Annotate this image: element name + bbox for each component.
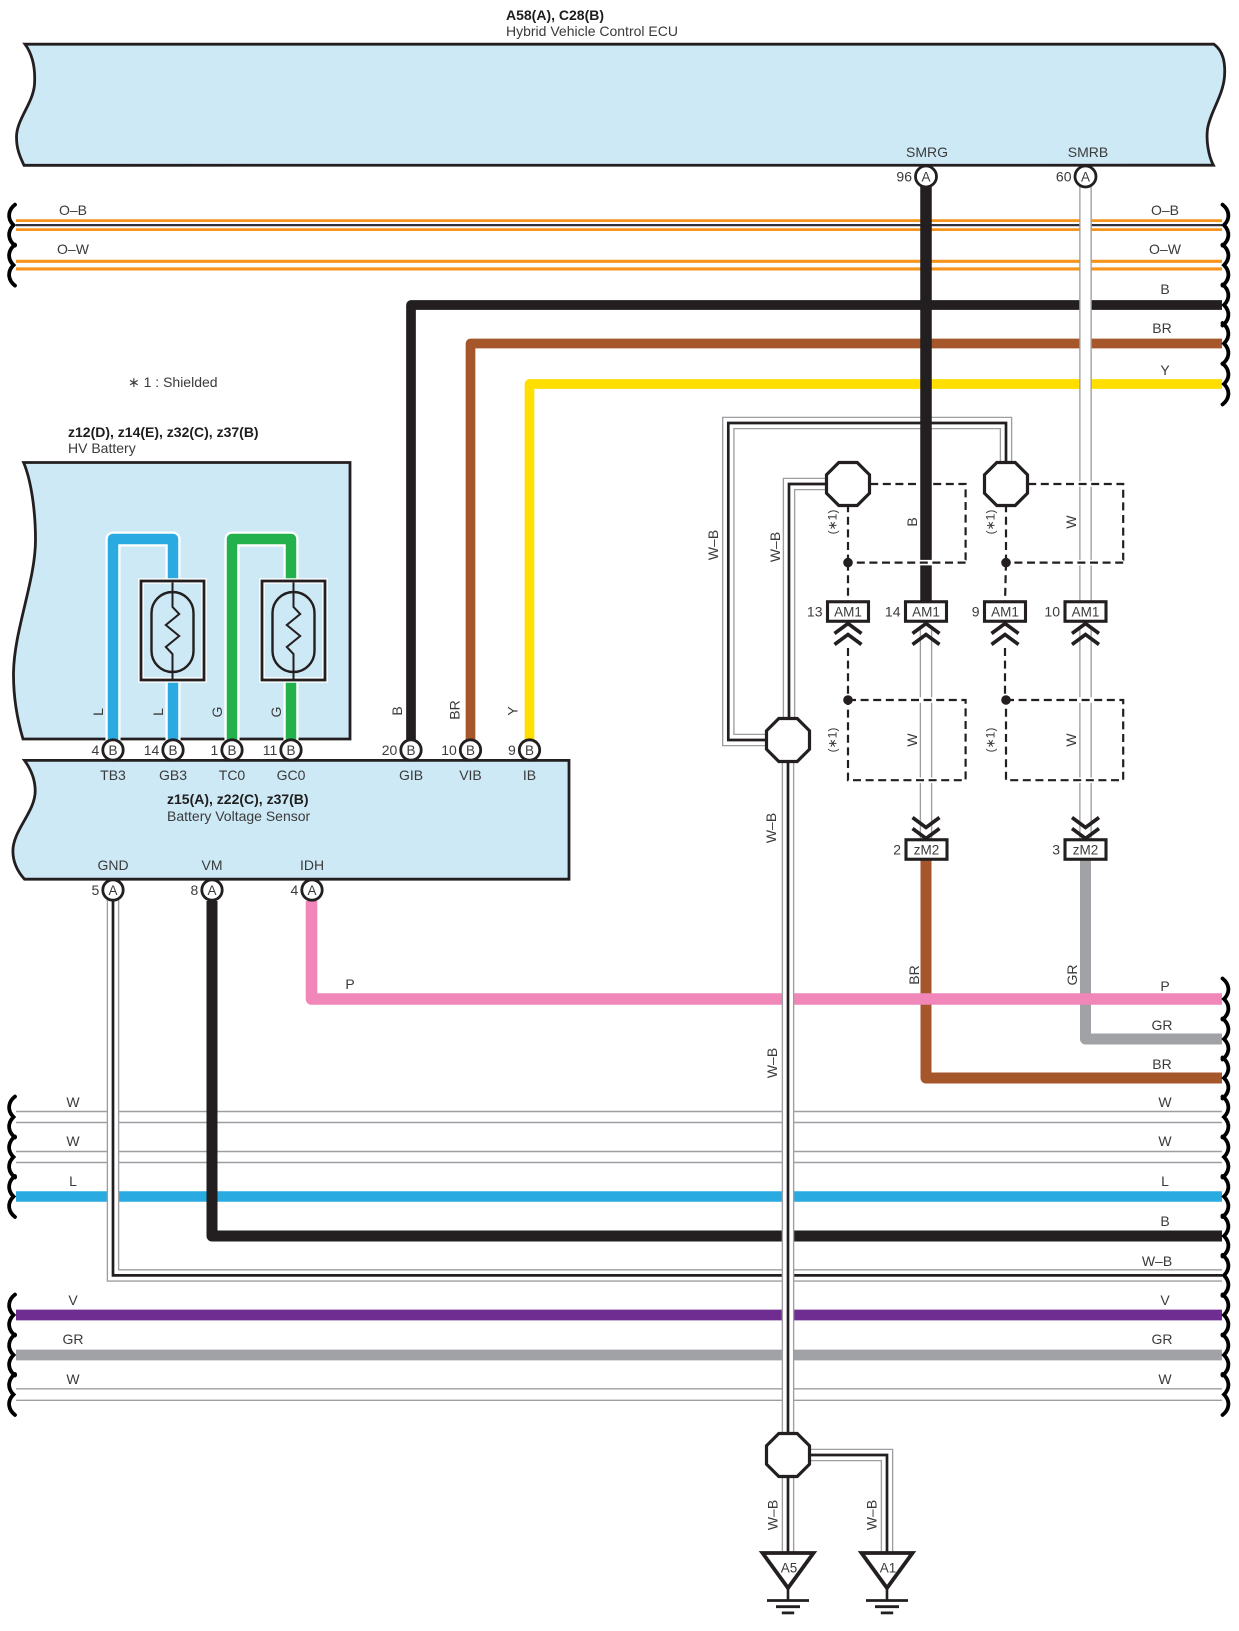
svg-text:B: B xyxy=(108,743,117,758)
svg-text:W–B: W–B xyxy=(864,1500,880,1530)
svg-text:W: W xyxy=(1158,1094,1172,1110)
svg-text:10: 10 xyxy=(1044,603,1060,619)
svg-text:A5: A5 xyxy=(781,1561,798,1576)
svg-text:2: 2 xyxy=(893,841,901,857)
svg-text:O–W: O–W xyxy=(1149,241,1182,257)
svg-text:P: P xyxy=(1160,978,1169,994)
svg-text:L: L xyxy=(150,708,166,716)
svg-text:B: B xyxy=(286,743,295,758)
svg-text:Hybrid Vehicle Control ECU: Hybrid Vehicle Control ECU xyxy=(506,23,678,39)
svg-text:11: 11 xyxy=(263,742,278,758)
svg-text:IB: IB xyxy=(523,767,536,783)
svg-text:GR: GR xyxy=(1152,1017,1173,1033)
svg-text:5: 5 xyxy=(92,882,100,898)
svg-text:TC0: TC0 xyxy=(219,767,246,783)
svg-text:3: 3 xyxy=(1052,841,1060,857)
svg-text:W: W xyxy=(1063,515,1079,529)
svg-text:GIB: GIB xyxy=(399,767,423,783)
svg-text:L: L xyxy=(1161,1173,1169,1189)
svg-text:IDH: IDH xyxy=(300,857,324,873)
svg-text:60: 60 xyxy=(1056,168,1072,184)
svg-text:P: P xyxy=(345,976,354,992)
svg-text:GR: GR xyxy=(1064,965,1080,986)
svg-text:1: 1 xyxy=(211,742,219,758)
svg-text:V: V xyxy=(1160,1292,1170,1308)
svg-text:B: B xyxy=(466,743,475,758)
svg-text:AM1: AM1 xyxy=(834,604,862,619)
svg-text:VM: VM xyxy=(202,857,223,873)
svg-text:z15(A), z22(C), z37(B): z15(A), z22(C), z37(B) xyxy=(167,791,309,807)
svg-text:G: G xyxy=(209,707,225,718)
svg-text:W–B: W–B xyxy=(765,1500,781,1530)
svg-text:AM1: AM1 xyxy=(991,604,1019,619)
svg-text:4: 4 xyxy=(291,882,299,898)
svg-text:VIB: VIB xyxy=(459,767,482,783)
svg-text:W: W xyxy=(1063,733,1079,747)
svg-text:A58(A), C28(B): A58(A), C28(B) xyxy=(506,7,604,23)
svg-text:B: B xyxy=(525,743,534,758)
svg-text:14: 14 xyxy=(144,742,160,758)
svg-text:A: A xyxy=(921,169,930,184)
svg-text:B: B xyxy=(168,743,177,758)
svg-text:G: G xyxy=(268,707,284,718)
svg-text:A: A xyxy=(307,883,316,898)
svg-text:∗ 1 : Shielded: ∗ 1 : Shielded xyxy=(128,374,218,390)
svg-text:B: B xyxy=(406,743,415,758)
svg-text:W–B: W–B xyxy=(763,813,779,843)
svg-text:GR: GR xyxy=(1152,1331,1173,1347)
svg-text:B: B xyxy=(389,706,405,715)
svg-text:L: L xyxy=(90,708,106,716)
svg-text:B: B xyxy=(227,743,236,758)
svg-text:9: 9 xyxy=(508,742,516,758)
svg-text:L: L xyxy=(69,1173,77,1189)
svg-text:GR: GR xyxy=(63,1331,84,1347)
svg-text:A: A xyxy=(1081,169,1090,184)
svg-text:zM2: zM2 xyxy=(914,842,940,857)
svg-text:W: W xyxy=(1158,1133,1172,1149)
svg-text:V: V xyxy=(68,1292,78,1308)
svg-text:(∗1): (∗1) xyxy=(826,728,840,753)
svg-text:20: 20 xyxy=(382,742,398,758)
svg-text:A: A xyxy=(207,883,216,898)
svg-text:14: 14 xyxy=(885,603,901,619)
svg-text:O–B: O–B xyxy=(1151,202,1179,218)
svg-text:W: W xyxy=(66,1133,80,1149)
svg-text:W–B: W–B xyxy=(767,532,783,562)
svg-text:9: 9 xyxy=(972,603,980,619)
svg-text:B: B xyxy=(1160,1213,1169,1229)
svg-text:Y: Y xyxy=(1160,362,1170,378)
svg-text:SMRB: SMRB xyxy=(1068,144,1108,160)
svg-text:W: W xyxy=(904,733,920,747)
svg-text:(∗1): (∗1) xyxy=(984,510,998,535)
svg-text:W–B: W–B xyxy=(1142,1253,1172,1269)
svg-text:8: 8 xyxy=(191,882,199,898)
svg-text:13: 13 xyxy=(807,603,823,619)
svg-text:BR: BR xyxy=(1152,320,1171,336)
svg-text:GC0: GC0 xyxy=(277,767,306,783)
svg-text:W: W xyxy=(66,1094,80,1110)
svg-text:W: W xyxy=(66,1371,80,1387)
svg-text:Y: Y xyxy=(505,706,521,716)
svg-text:Battery Voltage Sensor: Battery Voltage Sensor xyxy=(167,808,311,824)
svg-text:O–W: O–W xyxy=(57,241,90,257)
svg-text:4: 4 xyxy=(92,742,100,758)
svg-text:W–B: W–B xyxy=(705,530,721,560)
svg-text:HV Battery: HV Battery xyxy=(68,440,136,456)
svg-text:AM1: AM1 xyxy=(1072,604,1100,619)
svg-text:A: A xyxy=(108,883,117,898)
svg-text:TB3: TB3 xyxy=(100,767,126,783)
svg-text:(∗1): (∗1) xyxy=(826,510,840,535)
svg-text:AM1: AM1 xyxy=(912,604,940,619)
svg-text:BR: BR xyxy=(906,965,922,984)
svg-text:B: B xyxy=(904,517,920,526)
svg-text:(∗1): (∗1) xyxy=(984,728,998,753)
svg-text:O–B: O–B xyxy=(59,202,87,218)
svg-text:BR: BR xyxy=(1152,1056,1171,1072)
svg-text:10: 10 xyxy=(441,742,457,758)
svg-text:z12(D), z14(E), z32(C), z37(B): z12(D), z14(E), z32(C), z37(B) xyxy=(68,424,259,440)
svg-text:zM2: zM2 xyxy=(1073,842,1099,857)
svg-text:BR: BR xyxy=(447,700,463,719)
svg-text:SMRG: SMRG xyxy=(906,144,948,160)
svg-text:B: B xyxy=(1160,281,1169,297)
svg-text:W–B: W–B xyxy=(764,1048,780,1078)
svg-text:A1: A1 xyxy=(880,1561,897,1576)
svg-text:96: 96 xyxy=(896,168,912,184)
svg-text:GB3: GB3 xyxy=(159,767,187,783)
svg-text:W: W xyxy=(1158,1371,1172,1387)
svg-text:GND: GND xyxy=(97,857,128,873)
